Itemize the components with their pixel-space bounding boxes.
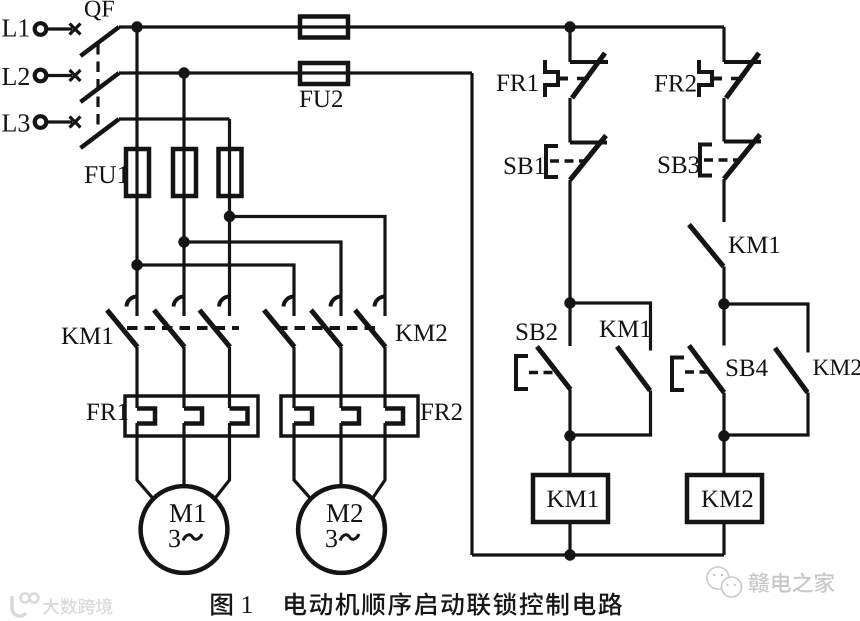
wire SB4 to node D [722, 393, 725, 437]
motor M1 label [170, 504, 205, 522]
wire node C to KM2 aux [724, 304, 808, 353]
SB2 actuator dashed link [529, 371, 558, 375]
KM1 pole2 fixed-contact arc [174, 297, 185, 307]
QF blade L1 [81, 27, 120, 56]
caption figure number [211, 594, 232, 616]
FR1 thermal actuator hook [545, 60, 568, 97]
wire KM1 pole2 to FR1 [182, 347, 185, 408]
contactor KM1 main contacts label [62, 328, 113, 345]
QF blade L3 [81, 119, 120, 148]
FR2 control contact label [655, 75, 696, 92]
wire FR1 to SB1 [568, 98, 571, 143]
FR2 heater element phase A [294, 409, 312, 424]
wire KM2 coil to bottom bus [722, 522, 725, 555]
watermark text bottom left [43, 598, 113, 615]
wire node A to KM1 aux [570, 303, 651, 351]
QF contact cross L2 [70, 70, 81, 81]
pushbutton SB4 label [727, 359, 768, 376]
wire KM1 interlock to node C [722, 267, 725, 305]
SB3 button actuator bracket [700, 145, 712, 176]
contactor KM2 main contacts label [396, 324, 447, 341]
SB1 button actuator bracket [546, 146, 558, 177]
wire node D to KM2 coil [722, 436, 725, 475]
KM2 aux NO contact blade [775, 348, 808, 393]
wire KM1 aux to node B [570, 391, 651, 436]
wire FR2 to M2 right [372, 423, 385, 499]
SB4 actuator dashed link [685, 370, 710, 374]
pushbutton SB3 label [659, 156, 699, 173]
wire FR1 to M1 middle [182, 423, 185, 484]
FR1 NC contact fixed terminal [570, 60, 608, 64]
SB3 actuator dashed link [704, 158, 738, 162]
FR1 heater element phase C [230, 409, 248, 424]
junction dot L1/bus [131, 21, 142, 32]
fuse FU1c [219, 149, 242, 196]
thermal relay FR2 box [281, 396, 418, 436]
wire KM1 pole1 to FR1 [135, 347, 138, 408]
SB2 NO contact blade [537, 347, 571, 390]
FR2 heater element phase C [385, 409, 403, 424]
KM1 mechanical link dashed [127, 326, 239, 330]
terminal L3 [35, 116, 47, 128]
wire FR2 to SB3 [722, 98, 725, 142]
wire FR2 to M2 middle [339, 423, 342, 484]
SB1 NC contact fixed terminal [570, 141, 607, 145]
KM1 interlock contact label [729, 237, 780, 254]
terminal L1 [35, 23, 47, 35]
FR1 control contact label [497, 75, 538, 92]
QF blade L2 [81, 73, 120, 102]
wire node B to KM1 coil [568, 436, 571, 475]
KM1 pole1 fixed-contact arc [127, 297, 138, 307]
FR1 heater element phase B [184, 409, 202, 424]
wire phase A vertical [135, 27, 138, 316]
wire SB2 to node B [568, 390, 571, 437]
wire top bus L1 [119, 25, 724, 28]
fuse FU2b [300, 63, 348, 84]
terminal L2 [35, 70, 47, 82]
FR1 NC contact blade tick [577, 77, 589, 81]
wire L1 terminal to breaker [48, 27, 72, 30]
coil KM2 label [702, 490, 753, 507]
KM2 pole2 blade [311, 310, 342, 347]
FR2 NC contact blade [726, 53, 759, 98]
wire phase B vertical [182, 73, 185, 316]
junction dot top bus / FR1 branch [564, 21, 575, 32]
SB3 NC contact blade [724, 135, 760, 180]
motor M2 [298, 486, 385, 573]
KM1 pole3 blade [200, 310, 231, 347]
watermark text bottom right [749, 572, 835, 593]
wire control bottom bus [472, 553, 724, 556]
junction dot node A [564, 297, 575, 308]
wire L2 to control rail [119, 71, 472, 74]
SB3 NC contact fixed terminal [724, 140, 761, 144]
junction dot node C [718, 298, 729, 309]
node L1 label [2, 19, 29, 36]
KM2 pole2 fixed-contact arc [331, 297, 342, 307]
KM2 pole3 fixed-contact arc [375, 297, 386, 307]
thermal relay FR1 label [87, 404, 128, 421]
wire KM2 pole2 to FR2 [339, 347, 342, 408]
SB4 button actuator bracket [672, 358, 684, 391]
wire KM1 coil to bottom bus [568, 522, 571, 555]
FR2 NC contact fixed terminal [724, 60, 761, 64]
motor M1 [141, 486, 228, 573]
wire KM2 pole1 to FR2 [292, 347, 295, 408]
coil KM1 label [547, 491, 598, 508]
SB1 NC contact blade [570, 136, 606, 181]
KM2 pole1 fixed-contact arc [284, 297, 295, 307]
FR2 heater element phase B [341, 409, 359, 424]
KM1 auxiliary contact label [600, 321, 651, 338]
SB1 actuator dashed link [550, 159, 584, 163]
KM2 pole1 blade [264, 310, 295, 347]
junction dot bottom bus [564, 549, 575, 560]
breaker QF label [85, 1, 114, 21]
KM1 pole1 blade [107, 310, 138, 347]
wire SB1 to node A [568, 180, 571, 303]
contactor coil KM1 [533, 475, 608, 522]
KM1 pole3 fixed-contact arc [219, 297, 230, 307]
node C junction to SB4 [722, 304, 725, 346]
KM1 interlock NO contact blade [689, 225, 724, 267]
wire phase C vertical [228, 119, 231, 316]
node L2 label [2, 68, 29, 85]
wire SB3 to KM1 interlock [722, 179, 725, 222]
KM2 auxiliary contact label [813, 359, 860, 375]
wire top bus to FR2 contact [722, 27, 725, 62]
fuse FU2 label [300, 90, 342, 107]
wire FR1 to M1 left [137, 423, 153, 499]
junction dot node D [718, 430, 729, 441]
wire L3 horizontal [119, 117, 230, 120]
junction dot phase A branch [131, 259, 142, 270]
fuse FU1b [173, 149, 196, 196]
junction dot L2/bus [178, 67, 189, 78]
motor M2 phase label [326, 530, 337, 548]
node L3 label [2, 114, 29, 132]
wire KM1 pole3 to FR1 [228, 347, 231, 408]
node A junction to SB2 [568, 303, 571, 346]
wire FR2 to M2 left [294, 423, 311, 499]
fuse FU1a [126, 149, 149, 196]
SB4 NO contact blade [689, 346, 724, 393]
thermal relay FR1 box [125, 396, 258, 436]
wire branch C to KM2 pole3 [230, 217, 386, 317]
KM1 pole2 blade [154, 310, 185, 347]
wire L2 terminal to breaker [48, 74, 72, 77]
wire KM2 pole3 to FR2 [383, 347, 386, 408]
motor M1 phase label [169, 530, 180, 548]
pushbutton SB2 label [517, 323, 557, 340]
motor M2 label [327, 504, 362, 522]
wire branch A to KM2 pole1 [137, 265, 294, 316]
wire FR1 to M1 right [215, 423, 230, 499]
junction dot phase B branch [178, 236, 189, 247]
junction dot node B [564, 430, 575, 441]
wire KM2 aux to node D [724, 393, 808, 436]
FR2 thermal actuator hook [699, 60, 722, 97]
thermal relay FR2 label [421, 403, 462, 420]
caption title text [285, 592, 622, 615]
FR1 NC contact blade [572, 53, 605, 98]
pushbutton SB1 label [505, 157, 545, 174]
junction dot phase C branch [224, 211, 235, 222]
QF contact cross L3 [70, 117, 81, 128]
QF mechanical link dashed [96, 44, 99, 131]
wire control left rail [470, 73, 473, 555]
FR2 NC contact blade tick [731, 77, 743, 81]
wire branch B to KM2 pole2 [184, 242, 341, 316]
KM1 aux NO contact blade [617, 347, 650, 391]
contactor coil KM2 [687, 475, 762, 522]
SB2 button actuator bracket [516, 356, 528, 389]
watermark logo bubbles bottom right [707, 567, 742, 597]
wire L3 terminal to breaker [48, 120, 72, 123]
QF contact cross L1 [70, 24, 81, 35]
watermark logo bottom left [12, 594, 39, 617]
fuse FU2a [300, 17, 348, 38]
KM2 pole3 blade [355, 310, 386, 347]
FR1 heater element phase A [137, 409, 155, 424]
fuse FU1 label [85, 166, 128, 183]
wire top bus to FR1 contact [568, 27, 571, 62]
KM2 mechanical link dashed [277, 326, 378, 330]
